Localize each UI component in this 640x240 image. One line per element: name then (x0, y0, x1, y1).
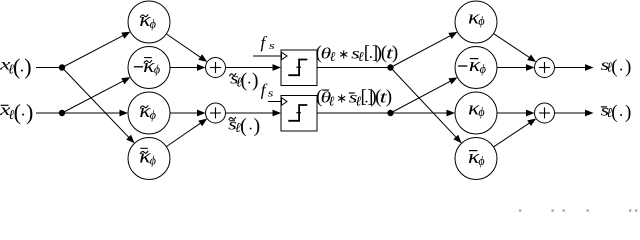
gain block minus-kappabar_phi (455, 47, 497, 89)
wire sum2 to quantizer2 (226, 112, 274, 114)
svg-text:ϕ: ϕ (478, 13, 484, 28)
quantizer box 2 (slicer) (281, 96, 317, 132)
svg-text:ϕ: ϕ (150, 152, 156, 167)
wire kappa1 to sum3 (494, 34, 531, 58)
svg-text:s: s (269, 40, 275, 52)
wire quantizer2 output (317, 112, 391, 114)
wire node1 to gain kappa1 (391, 35, 451, 67)
junction dot thetabar*sbar (387, 110, 393, 116)
svg-text:∗: ∗ (338, 46, 349, 61)
label (theta_l * s_l[.])(t) (316, 42, 399, 64)
svg-text:ℓ: ℓ (330, 49, 336, 64)
wire gain2 to sum1 (170, 67, 198, 69)
wire x_lbar to gain2 (62, 81, 124, 113)
svg-text:.: . (619, 101, 623, 120)
cropped caption fragment marks (519, 210, 637, 212)
svg-text:): ) (254, 115, 261, 137)
summer right bottom (535, 103, 555, 123)
svg-text:.: . (619, 56, 623, 75)
svg-text:ϕ: ϕ (478, 153, 484, 168)
wire output s_lbar (555, 112, 587, 114)
wire node2 to gain kappa3 (391, 112, 448, 114)
svg-text:(: ( (611, 102, 617, 123)
wire x_l input (36, 67, 62, 69)
svg-text:): ) (24, 54, 31, 79)
svg-text:ϕ: ϕ (154, 62, 160, 77)
label x_l(.) (0, 54, 32, 79)
svg-text:.: . (247, 71, 251, 88)
wire node2 to gain kappa2 (391, 81, 451, 113)
wire x_l to gain4 (62, 68, 129, 138)
svg-text:ℓ: ℓ (329, 94, 335, 109)
gain block ktilde_phi top-left (128, 1, 170, 43)
clock wire quantizer1 (253, 55, 281, 57)
wire kappa3 to sum4 (497, 112, 527, 114)
svg-text:(: ( (240, 115, 247, 137)
wire x_lbar to gain3 (62, 112, 121, 114)
wire x_lbar input (36, 112, 62, 114)
svg-text:): ) (625, 102, 631, 123)
wire kappa2 to sum3 (497, 67, 527, 69)
svg-text:(: ( (14, 99, 21, 124)
gain block kappa_phi third-right (455, 92, 497, 134)
wire gain1 to sum1 (166, 34, 201, 58)
svg-text:ϕ: ϕ (150, 16, 156, 31)
clock label f_s bottom (261, 80, 274, 99)
svg-text:): ) (625, 56, 631, 77)
svg-text:): ) (392, 42, 398, 63)
wire gain4 to sum2 (166, 123, 201, 147)
svg-text:f: f (261, 33, 268, 52)
wire sum1 to quantizer1 (226, 67, 274, 69)
wire quantizer1 output (317, 67, 391, 69)
junction dot x_l (59, 64, 65, 70)
summer left bottom (206, 103, 226, 123)
svg-text:.: . (249, 116, 253, 133)
label stilde_l(.) (230, 69, 259, 91)
svg-text:ϕ: ϕ (150, 107, 156, 122)
gain block minus-kbartilde_phi (128, 47, 170, 89)
gain block kappa_phi top-right (455, 1, 497, 43)
label (thetabar_l * sbar_l[.])(t) (316, 87, 392, 109)
junction dot x_lbar (59, 110, 65, 116)
svg-text:): ) (252, 69, 259, 91)
svg-text:.: . (21, 101, 25, 120)
svg-text:∗: ∗ (336, 91, 347, 106)
gain block kbartilde_phi bottom-left (128, 138, 170, 180)
summer left top (206, 58, 226, 78)
svg-text:(: ( (611, 56, 617, 77)
wire node1 to gain kappa4 (391, 68, 457, 138)
junction dot theta*s (387, 64, 393, 70)
svg-text:ϕ: ϕ (478, 104, 484, 119)
summer right top (535, 58, 555, 78)
label s_l(.) output (601, 56, 632, 78)
label xbar_l(.) (0, 99, 33, 124)
label sbar_l(.) output (601, 101, 632, 123)
clock wire quantizer2 (268, 101, 281, 103)
wire gain3 to sum2 (170, 112, 198, 114)
svg-text:): ) (26, 99, 33, 124)
label sbartilde_l(.) (228, 115, 260, 137)
gain block kappabar_phi bottom-right (455, 138, 497, 180)
svg-text:s: s (268, 88, 274, 100)
svg-text:): ) (386, 87, 392, 108)
gain block ktilde_phi third-left (128, 92, 170, 134)
quantizer box 1 (slicer) (281, 50, 317, 86)
svg-text:ϕ: ϕ (480, 61, 486, 76)
wire output s_l (555, 67, 587, 69)
wire x_l to gain1 (62, 35, 124, 67)
wire kappa4 to sum4 (494, 123, 531, 147)
clock label f_s top (261, 33, 275, 52)
